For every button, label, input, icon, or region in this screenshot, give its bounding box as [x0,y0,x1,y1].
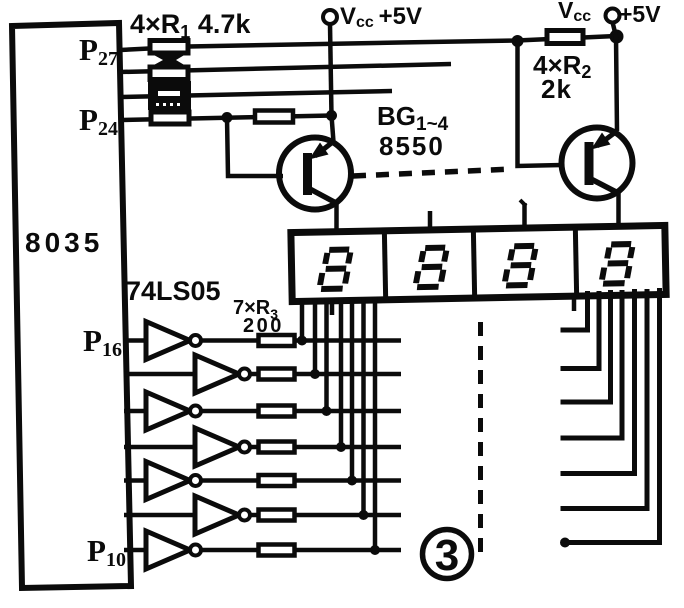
inverter row 2 [124,355,401,393]
resistor network 4xR1 column [148,41,191,125]
wire R2 branch down to base [518,41,563,166]
dashed bus (omitted digits 2,3) [478,322,483,560]
wire Vcc node down to Q1 emitter [332,116,334,143]
figure number 3 [423,530,472,581]
svg-text:8035: 8035 [25,227,103,258]
inverter row 5 [124,462,401,500]
node P24/R pullup junction [222,112,233,123]
segment pin stub (unused) left [330,299,335,315]
inverter row 7 [124,531,401,569]
wire P27 to +5V rail [120,36,616,50]
Vcc terminal right [606,9,620,23]
svg-text:3: 3 [435,531,459,580]
wire Vcc down to node [330,24,332,116]
inverter row 1 [124,322,401,360]
svg-text:+5V: +5V [619,1,661,27]
wire P26 stub [120,64,451,72]
transistor Q1 8550 [279,138,351,210]
wire base branch down [227,118,283,177]
segment pin stub (unused) right [572,294,577,311]
wire Vcc right down to Q2 emitter [613,22,618,131]
anode stub digit2 [428,211,433,233]
display module [291,225,666,301]
digit 1 [320,249,351,289]
digit 2 [416,248,447,288]
dashed wire (omitted transistors) [353,169,513,176]
svg-text:74LS05: 74LS05 [126,276,221,306]
resistor 4xR2 [547,31,583,44]
digit 3 [505,246,536,286]
node Vcc right junction [610,30,624,44]
IC U1 8035 box [12,23,131,588]
digit 4 [602,244,633,284]
wire Q1 collector down to display [334,203,339,232]
svg-text:Vcc +5V: Vcc +5V [340,3,422,31]
inverter row 4 [124,428,401,466]
inverter row 3 [124,392,401,430]
transistor Q2 8550 [562,128,633,199]
inverter row 6 [124,496,401,534]
segment bus verticals (digit 1) [302,297,375,550]
node on bottom staircase wire [560,538,570,548]
segment bus staircase (digit 4) [561,288,660,543]
Vcc terminal left [323,10,337,24]
node rail/R2 branch [512,35,524,47]
anode stub digit3 [522,203,527,231]
wire Q2 collector down to display [616,193,621,230]
wire P25 stub [120,91,392,97]
wire P24 [120,116,332,121]
svg-text:2k: 2k [541,74,572,104]
resistor pull-up (left, 2k) [255,111,293,123]
svg-text:4×R1 4.7k: 4×R1 4.7k [130,9,251,42]
node Vcc/pullup junction [326,110,337,121]
svg-text:8550: 8550 [379,131,445,161]
